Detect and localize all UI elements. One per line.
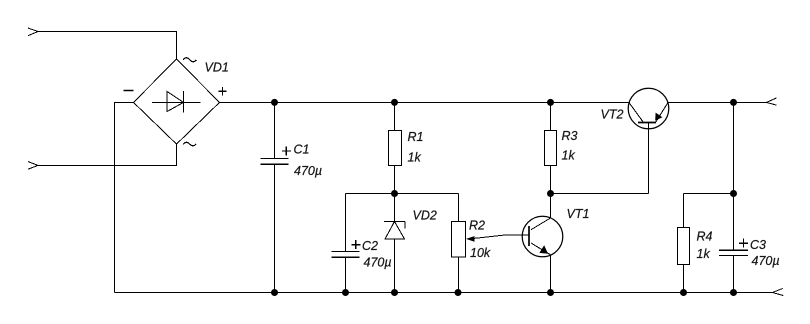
junction dot R1 bottom node (391, 190, 398, 197)
capacitor C3 (719, 102, 748, 292)
svg-text:C2: C2 (362, 239, 378, 253)
wire top rail right of VT2 (669, 101, 767, 103)
wiper arrow R2 to VT1 base (466, 235, 529, 242)
zener diode VD2 (384, 194, 405, 293)
transistor VT2 (628, 88, 669, 193)
wire bottom rail (115, 292, 773, 294)
input terminal top (28, 28, 38, 36)
junction dot C3 mid node (730, 190, 737, 197)
wire input2 to bridge bottom (38, 144, 177, 165)
ac tilde bottom (183, 142, 196, 145)
wire node B (R3-VT1 collector-VT2 base) (551, 193, 649, 195)
wire node C (R4 top to C3) (684, 193, 734, 195)
junction dot C2 bottom (342, 289, 349, 296)
wire top rail left of VT2 (220, 101, 629, 103)
junction dot VD2 bottom (391, 289, 398, 296)
svg-text:R3: R3 (562, 129, 578, 143)
svg-text:VD1: VD1 (205, 61, 229, 75)
svg-text:470µ: 470µ (752, 254, 780, 268)
transistor VT1 (522, 194, 563, 293)
junction dot C1 top (271, 99, 278, 106)
svg-text:1k: 1k (408, 151, 422, 165)
plus sign C3 (739, 239, 748, 248)
capacitor C2 (332, 194, 360, 293)
resistor R1 (389, 102, 402, 193)
svg-text:C1: C1 (294, 143, 310, 157)
svg-text:R1: R1 (408, 130, 424, 144)
junction dot R1 top (391, 99, 398, 106)
wire bridge minus to bottom rail (115, 102, 134, 292)
output terminal bottom (773, 288, 784, 295)
minus sign bridge (124, 90, 134, 92)
output terminal top (767, 98, 777, 105)
junction dot C3 bottom (730, 289, 737, 296)
junction dot R3 top (547, 99, 554, 106)
svg-text:1k: 1k (697, 247, 711, 261)
ac tilde top (183, 58, 196, 62)
svg-text:1k: 1k (562, 149, 576, 163)
svg-text:470µ: 470µ (364, 256, 392, 270)
junction dot R2 bottom (455, 289, 462, 296)
svg-text:R4: R4 (697, 230, 713, 244)
capacitor C1 (261, 102, 289, 292)
svg-text:VT1: VT1 (567, 207, 590, 221)
svg-text:VD2: VD2 (413, 209, 437, 223)
plus sign C2 (351, 240, 360, 249)
resistor R4 (678, 194, 690, 293)
input terminal bottom (28, 162, 38, 170)
wire node A (C2-VD2-R2) (346, 193, 459, 195)
junction dot R3 bottom node (547, 190, 554, 197)
plus sign bridge output (218, 87, 226, 95)
svg-text:470µ: 470µ (294, 164, 322, 178)
junction dot VT1 emitter bottom (547, 289, 554, 296)
svg-text:10k: 10k (470, 246, 491, 260)
svg-text:R2: R2 (469, 218, 485, 232)
wire input1 to bridge top (38, 32, 177, 60)
potentiometer R2 (452, 194, 466, 293)
plus sign C1 (282, 147, 291, 156)
junction dot C1 bottom (271, 289, 278, 296)
svg-text:VT2: VT2 (601, 108, 624, 122)
resistor R3 (545, 102, 557, 193)
junction dot C3 top (730, 99, 737, 106)
svg-text:C3: C3 (750, 238, 766, 252)
bridge rectifier VD1 (134, 59, 220, 144)
junction dot R4 bottom (680, 289, 687, 296)
